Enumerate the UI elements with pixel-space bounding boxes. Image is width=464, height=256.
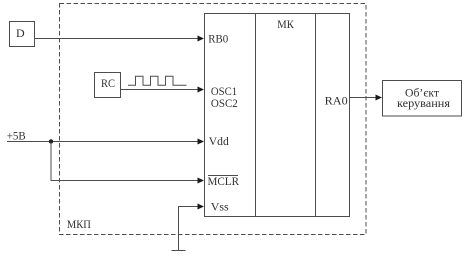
block object of control (Ob'ekt keruvannya) [383,81,462,117]
arrowhead into Vdd [198,139,205,145]
arrowhead into OSC1 [198,87,205,93]
svg-text:керування: керування [397,96,450,110]
ground [172,250,186,252]
arrowhead into RB0 [198,36,205,42]
svg-text:OSC2: OSC2 [211,96,238,110]
wire +5V to Vdd [7,141,199,143]
svg-text:D: D [16,26,25,40]
arrowhead into object block [376,95,383,101]
block D (data source) [10,22,35,47]
svg-text:МКП: МКП [67,217,91,231]
arrowhead into Vss [198,204,205,210]
MK internal partition line left [255,14,257,217]
MCLR overline [208,175,238,177]
block U1 MK outline [205,14,350,217]
svg-text:+5В: +5В [7,129,26,143]
wire RA0 to object block [350,97,377,99]
enclosure MKP dashed border [60,4,367,235]
wire RC to OSC1 [121,89,199,91]
wire Vss to ground [179,207,199,251]
svg-text:МК: МК [277,17,294,31]
block RC oscillator [95,73,121,98]
svg-text:RA0: RA0 [325,94,348,108]
MK internal partition line right [315,14,317,217]
wire junction down and to MCLR [51,142,199,181]
wire D to RB0 [35,38,199,40]
clock waveform [128,76,187,85]
arrowhead into MCLR [198,178,205,184]
junction node on +5V net [49,139,53,143]
svg-text:Vdd: Vdd [209,134,229,148]
svg-text:Vss: Vss [211,199,229,213]
svg-text:RB0: RB0 [208,31,228,45]
svg-text:RC: RC [101,76,115,90]
